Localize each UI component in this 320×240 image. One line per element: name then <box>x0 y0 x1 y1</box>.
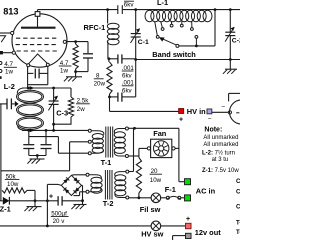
tube plate bar <box>21 27 56 29</box>
svg-text:All unmarked r: All unmarked r <box>203 142 240 148</box>
wire bottom rail <box>0 225 151 227</box>
svg-text:HV sw: HV sw <box>141 230 163 239</box>
svg-text:Z-1: 7.5v 10w: Z-1: 7.5v 10w <box>202 168 239 174</box>
wire T-2 top to bridge <box>74 174 87 176</box>
transformer T-2 secondary winding <box>86 173 89 176</box>
junction bridge minus cap <box>81 199 84 202</box>
wire screen bottom <box>76 71 88 73</box>
svg-text:1w: 1w <box>60 67 68 74</box>
inductor RFC-1 <box>107 23 119 29</box>
junction screen gnd node <box>74 70 77 73</box>
wire filament node y=88 <box>22 87 71 89</box>
junction bypass cap2 node <box>108 96 111 99</box>
wire fil caps bottom <box>29 155 46 157</box>
svg-text:L-2: 7½ turn: L-2: 7½ turn <box>202 149 235 156</box>
terminal 12v return square <box>186 233 192 238</box>
resistor glitch 8 20w <box>108 59 110 62</box>
band switch wiper arm <box>162 39 176 45</box>
switch HV sw <box>151 221 161 231</box>
fuse F-1 <box>166 196 169 199</box>
terminal AC in square 2 <box>185 195 191 201</box>
wire zener to cap <box>35 200 47 202</box>
junction band switch out <box>195 45 198 48</box>
svg-text:T-: T- <box>236 221 240 227</box>
svg-text:F-1: F-1 <box>165 185 176 194</box>
wire T-1 bottom to resistor <box>128 155 139 157</box>
ground screen <box>75 72 77 77</box>
tube pin filament right <box>46 63 49 66</box>
wire fil sw line <box>129 197 151 199</box>
switch Fil sw <box>151 193 161 203</box>
junction fan resistor bottom <box>138 196 141 199</box>
capacitor variable C-2 <box>225 31 235 33</box>
wire bridge plus <box>58 184 61 185</box>
capacitor filament <box>28 72 34 74</box>
wire fan left lead <box>139 147 147 149</box>
svg-text:T-1: T-1 <box>101 158 112 167</box>
svg-text:1w: 1w <box>5 68 13 75</box>
junction node C-1 top <box>134 8 137 11</box>
svg-text:+: + <box>49 194 53 201</box>
arrow fil line tap <box>30 129 35 133</box>
svg-text:Note:: Note: <box>204 126 222 133</box>
wire HV in <box>110 110 179 112</box>
svg-text:T-2: T-2 <box>103 199 114 208</box>
wire meter top <box>228 93 230 101</box>
wire fuse to AC <box>181 197 185 199</box>
transformer T-1 core <box>105 127 107 158</box>
junction block left edge 2 <box>0 76 2 79</box>
capacitor variable C-3 <box>49 100 59 102</box>
wire ground bus y=59.5 <box>136 59 240 61</box>
ground bus right <box>229 60 231 70</box>
wire bypass collector <box>135 60 137 97</box>
junction filament left <box>27 87 30 90</box>
capacitor filter 500uf 20v <box>47 200 57 202</box>
svg-text:10w: 10w <box>7 181 19 188</box>
junction fil line c <box>52 129 55 132</box>
svg-text:C-: C- <box>236 179 240 185</box>
svg-text:−: − <box>221 104 225 111</box>
capacitor fil bypass 1 <box>28 130 30 144</box>
terminal circle left a <box>0 62 2 65</box>
wire C-2 top lead <box>229 10 231 33</box>
svg-text:HV in: HV in <box>187 107 206 116</box>
junction bypass cap1 node <box>108 57 111 60</box>
transformer T-2 primary winding <box>126 170 129 173</box>
band switch contact 4 <box>180 24 183 27</box>
capacitor fil bypass 2 <box>45 130 47 144</box>
transformer T-1 primary winding <box>125 127 128 130</box>
wire C-3 top lead <box>53 88 55 101</box>
transformer T-1 secondary winding <box>88 129 91 132</box>
wire plate top bus y=9.6 <box>38 9 118 11</box>
wire input y=104 <box>0 103 7 105</box>
capacitor blocking .001 6kv <box>117 5 119 14</box>
junction fil line a <box>27 129 30 132</box>
capacitor input coupling <box>6 99 8 110</box>
label blocking cap 6kv <box>124 0 134 2</box>
band switch tap stub 2 <box>161 22 163 28</box>
junction block left edge <box>0 51 3 54</box>
tube V1 813 envelope <box>12 14 67 67</box>
junction node RFC top <box>106 8 109 11</box>
svg-text:+: + <box>179 116 183 123</box>
wire sw to fuse <box>161 197 167 199</box>
wire plate cap lead <box>37 16 39 27</box>
svg-text:6kv: 6kv <box>122 87 133 94</box>
wire fan top y=128.3 <box>135 127 179 129</box>
wire HV drop <box>109 97 111 112</box>
band switch contact 6 stub <box>195 38 197 46</box>
band switch contact 2 <box>161 28 164 31</box>
junction node L-1 right end <box>214 8 217 11</box>
band switch tap stub 5 <box>191 22 193 28</box>
svg-text:20 v: 20 v <box>53 218 66 225</box>
wire bridge minus <box>82 184 83 186</box>
tube plate cap square <box>35 12 40 17</box>
junction zener node <box>34 199 37 202</box>
svg-text:Band switch: Band switch <box>152 50 196 59</box>
band switch contact 3 <box>170 24 173 27</box>
wire grid input y=33 <box>0 32 11 34</box>
svg-text:C-3: C-3 <box>56 109 68 118</box>
tube filament <box>28 54 47 64</box>
svg-text:12v out: 12v out <box>195 228 221 237</box>
junction screen node <box>74 40 77 43</box>
junction cap plus <box>46 199 49 202</box>
svg-text:AC in: AC in <box>196 187 216 196</box>
wire C-1 bottom lead <box>135 37 137 60</box>
wire plus rail <box>46 184 48 226</box>
svg-text:+: + <box>186 214 191 223</box>
junction C-3 2.5k join <box>52 123 55 126</box>
band switch tap stub 4 <box>181 22 183 25</box>
tube grid dashed lines <box>16 37 58 39</box>
meter M1 body <box>230 100 254 124</box>
svg-text:C-2: C-2 <box>232 37 240 44</box>
wire T-2 bottom to bridge <box>80 191 86 193</box>
meter M1 terminal <box>228 111 231 114</box>
wire meter <box>212 111 229 113</box>
wire L-1 right drop <box>214 10 216 46</box>
wire AC drop right <box>178 128 180 181</box>
wire C-1 top lead <box>135 10 137 34</box>
svg-text:20w: 20w <box>94 80 106 87</box>
junction bus C-2 <box>229 58 232 61</box>
capacitor bypass 2 <box>110 96 118 98</box>
wire 12v return <box>172 236 174 240</box>
wire HV sw to 12v <box>161 225 186 227</box>
capacitor screen bypass <box>87 42 89 54</box>
terminal HV in square <box>179 109 184 114</box>
inductor L-2 bifilar <box>17 90 44 103</box>
junction fil line b <box>45 129 48 132</box>
ground zener <box>34 201 36 207</box>
junction C-3 top <box>52 87 55 90</box>
svg-text:2w: 2w <box>77 106 85 113</box>
tube pin grid terminal <box>11 31 14 34</box>
wire band switch output <box>179 45 215 47</box>
fan motor B1 <box>151 139 172 157</box>
wire L-2 top curl <box>17 88 24 93</box>
band switch contact 5 <box>191 28 194 31</box>
diode zener Z-1 <box>0 200 3 202</box>
wire RFC bottom lead <box>107 42 109 59</box>
wire C-3 bottom lead <box>53 104 55 130</box>
terminal circle left b <box>0 70 2 73</box>
meter M1 mark <box>236 112 239 114</box>
svg-text:L-1: L-1 <box>157 0 168 7</box>
svg-text:6kv: 6kv <box>124 2 135 9</box>
band switch contact 6 <box>195 36 198 39</box>
wire filament line y=130.4 <box>22 129 88 131</box>
wire fan right lead <box>175 147 179 149</box>
band switch contact 1 <box>156 36 159 39</box>
svg-text:at 3 tu: at 3 tu <box>212 157 229 163</box>
svg-text:813: 813 <box>3 6 18 16</box>
band switch tap stub 1 <box>155 22 158 36</box>
transformer T-2 core <box>104 170 106 200</box>
tube pin filament left <box>27 64 30 67</box>
svg-text:6kv: 6kv <box>122 73 133 80</box>
wire filament box bottom <box>28 84 48 86</box>
wire T-1 center tap path <box>70 141 89 143</box>
wire fil line 2 y=136.6 <box>29 136 59 138</box>
junction node C-2 top <box>229 8 232 11</box>
wire center tap to left <box>1 170 70 172</box>
resistor input 2.5k 2w <box>70 88 72 97</box>
wire screen y=41.6 <box>66 41 88 43</box>
svg-text:Fan: Fan <box>153 129 167 138</box>
svg-text:C-1: C-1 <box>138 39 149 46</box>
wire T-1 bottom-left path <box>57 137 59 154</box>
junction bus left <box>134 58 137 61</box>
wire L-2 bottom curl <box>18 126 29 130</box>
svg-text:Fil sw: Fil sw <box>140 205 161 214</box>
tube pin terminal 2 <box>12 51 15 54</box>
wire C-2 bottom lead <box>229 36 231 60</box>
svg-text:L-2: L-2 <box>4 82 15 91</box>
junction bottom rail cap <box>46 225 49 228</box>
resistor screen 4.7 1w <box>75 42 77 44</box>
junction fil caps gnd <box>36 154 39 157</box>
wire input riser <box>0 104 2 201</box>
ground filament caps <box>36 156 38 160</box>
wire grid2 y=52.7 <box>0 52 12 54</box>
svg-text:−: − <box>208 115 212 122</box>
tube pin screen terminal <box>63 40 66 43</box>
svg-text:T-: T- <box>236 230 240 236</box>
resistor grid (cut at edge) <box>0 36 6 42</box>
arrow input tap <box>15 101 19 107</box>
bridge rectifier D1-D4 <box>61 175 81 195</box>
band switch tap stub 3 <box>170 22 172 25</box>
wire input cap to tap <box>11 103 14 105</box>
terminal 12v out square <box>186 223 192 228</box>
resistor bleeder 50k 10w <box>2 188 27 193</box>
terminal AC in square 1 <box>185 179 191 185</box>
capacitor variable C-1 <box>131 33 141 35</box>
svg-text:All unmarked c: All unmarked c <box>203 135 240 141</box>
ground bridge <box>74 204 87 206</box>
svg-text:C-: C- <box>236 205 240 211</box>
resistor fan 20 10w <box>136 158 141 193</box>
svg-text:10w: 10w <box>150 177 162 184</box>
wire T1-T2 link <box>133 128 135 171</box>
wire filament leg right <box>47 66 49 85</box>
svg-text:C-: C- <box>236 190 240 196</box>
svg-text:RFC-1: RFC-1 <box>84 23 106 32</box>
svg-text:Z-1: Z-1 <box>0 205 11 214</box>
inductor L-1 <box>145 10 154 22</box>
terminal HV meter square <box>207 109 212 114</box>
arrow filament tap <box>30 86 35 90</box>
junction T-1 AC node <box>133 127 136 130</box>
capacitor bypass 1 <box>109 58 118 60</box>
wire RFC top lead <box>107 10 109 24</box>
band switch wiper hub <box>176 44 179 47</box>
wire T-1 top to node <box>128 127 134 129</box>
wire filament leg left <box>27 67 29 88</box>
